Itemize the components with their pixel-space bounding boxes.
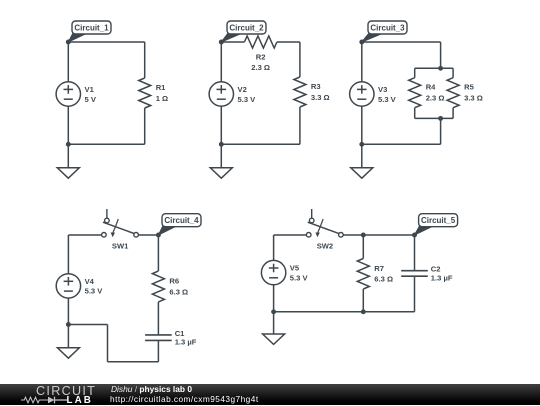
ground C3 <box>351 168 373 178</box>
wire V1 bottom <box>67 106 69 144</box>
switch SW2 <box>306 209 343 250</box>
svg-text:R6: R6 <box>169 276 179 285</box>
resistor R6 6.3 ohm <box>152 271 188 302</box>
svg-text:C1: C1 <box>175 329 185 338</box>
wire bottom right seg C4 <box>108 361 159 363</box>
wire R6 top <box>157 235 159 271</box>
junction parallel bottom <box>438 116 443 121</box>
wire node to R2 <box>221 41 244 43</box>
resistor R3 3.3 ohm <box>294 77 330 107</box>
label Circuit_5 <box>415 214 458 235</box>
resistor R7 6.3 ohm <box>357 259 393 290</box>
resistor R4 2.3 ohm <box>409 78 445 108</box>
CircuitLab logo wordmark LAB <box>67 396 93 406</box>
svg-text:V1: V1 <box>85 85 95 94</box>
label Circuit_3 <box>362 21 407 42</box>
wire parallel top rail <box>415 67 453 69</box>
svg-text:2.3 Ω: 2.3 Ω <box>251 63 270 72</box>
wire ground stem C5 <box>273 312 275 334</box>
svg-text:5.3 V: 5.3 V <box>378 95 397 104</box>
svg-text:R5: R5 <box>464 83 474 92</box>
label Circuit_4 <box>158 214 201 235</box>
node C2 top <box>412 233 417 238</box>
wire down to parallel <box>440 42 442 68</box>
wire top-left C4 <box>68 234 101 236</box>
wire R5 bottom <box>452 108 454 119</box>
node top-left C1 <box>66 40 71 45</box>
wire top C1 <box>68 41 144 43</box>
wire bottom vert seg C4 <box>107 325 109 362</box>
wire R1 bottom <box>144 108 146 144</box>
resistor R1 1 ohm <box>139 78 168 108</box>
svg-text:R4: R4 <box>426 83 436 92</box>
wire V2 bottom <box>220 106 222 144</box>
svg-text:R1: R1 <box>156 83 166 92</box>
svg-text:6.3 Ω: 6.3 Ω <box>169 287 188 296</box>
wire V5 bottom <box>273 285 275 312</box>
wire SW1 to node <box>138 234 158 236</box>
voltage source V3 5.3 V <box>350 82 397 106</box>
svg-text:3.3 Ω: 3.3 Ω <box>311 93 330 102</box>
wire top-left C5 <box>274 234 307 236</box>
footer url line <box>110 395 259 403</box>
resistor R2 2.3 ohm <box>244 36 277 72</box>
svg-text:V3: V3 <box>378 85 387 94</box>
wire bottom C2 <box>221 143 300 145</box>
svg-text:Circuit_1: Circuit_1 <box>74 23 109 32</box>
svg-text:Circuit_2: Circuit_2 <box>229 23 264 32</box>
wire ground stem C3 <box>361 144 363 168</box>
wire R7 top <box>362 235 364 259</box>
svg-text:5.3 V: 5.3 V <box>290 273 309 282</box>
capacitor C2 1.3 uF <box>401 265 453 283</box>
footer title line <box>111 385 192 393</box>
wire ground stem C2 <box>220 144 222 168</box>
svg-text:V2: V2 <box>238 85 247 94</box>
ground C1 <box>57 168 79 178</box>
svg-text:R7: R7 <box>374 264 384 273</box>
svg-text:2.3 Ω: 2.3 Ω <box>426 94 445 103</box>
resistor R5 3.3 ohm <box>447 78 483 108</box>
wire R6 to C1cap <box>157 302 159 335</box>
wire bottom C3 <box>362 143 441 145</box>
wire bottom C1 <box>68 143 144 145</box>
svg-text:1.3 µF: 1.3 µF <box>431 273 453 282</box>
svg-text:5 V: 5 V <box>85 95 97 104</box>
wire R4 bottom <box>414 108 416 119</box>
CircuitLab logo wordmark CIRCUIT <box>36 385 96 398</box>
switch SW1 <box>102 209 139 250</box>
wire R7 bottom <box>362 289 364 312</box>
svg-text:5.3 V: 5.3 V <box>85 287 104 296</box>
wire V5 rail top <box>273 235 275 260</box>
junction bottom C3 <box>359 142 364 147</box>
node R7 top <box>361 233 366 238</box>
svg-text:1.3 µF: 1.3 µF <box>175 338 197 347</box>
capacitor C1 1.3 uF <box>145 329 197 347</box>
svg-text:SW1: SW1 <box>112 241 129 250</box>
voltage source V4 5.3 V <box>56 274 103 298</box>
ground C4 <box>57 348 79 358</box>
wire node to node C5 <box>363 234 414 236</box>
wire V2 top <box>220 42 222 82</box>
wire top C3 <box>362 41 441 43</box>
wire parallel bottom rail <box>415 117 453 119</box>
svg-text:Circuit_3: Circuit_3 <box>370 23 405 32</box>
wire R4 top <box>414 68 416 77</box>
node top-left C2 <box>219 40 224 45</box>
junction bottom C2 <box>219 142 224 147</box>
junction V5 bottom <box>271 309 276 314</box>
svg-text:C2: C2 <box>431 265 441 274</box>
ground C5 <box>263 334 285 344</box>
svg-text:V5: V5 <box>290 264 300 273</box>
wire ground stem C1 <box>67 144 69 168</box>
svg-text:5.3 V: 5.3 V <box>238 95 257 104</box>
wire V4 rail top <box>67 235 69 274</box>
wire C2 top <box>414 235 416 271</box>
svg-text:6.3 Ω: 6.3 Ω <box>374 275 393 284</box>
voltage source V1 5 V <box>56 82 97 106</box>
wire V1 top <box>67 42 69 82</box>
node C4 <box>156 233 161 238</box>
wire R3 bottom <box>299 107 301 144</box>
svg-text:R2: R2 <box>256 53 266 62</box>
svg-text:Circuit_5: Circuit_5 <box>421 216 456 225</box>
wire right rail C2 <box>299 42 301 77</box>
junction V4 bottom <box>66 322 71 327</box>
wire ground stem C4 <box>67 325 69 348</box>
svg-text:R3: R3 <box>311 82 321 91</box>
svg-text:1 Ω: 1 Ω <box>156 94 168 103</box>
wire C1 down <box>157 340 159 361</box>
node top-left C3 <box>359 40 364 45</box>
junction parallel top <box>438 66 443 71</box>
svg-text:V4: V4 <box>85 277 95 286</box>
wire R1 top <box>144 42 146 78</box>
wire V3 top <box>361 42 363 82</box>
junction R7 bottom <box>361 309 366 314</box>
CircuitLab logo squiggle (resistor + diode) <box>21 395 67 405</box>
svg-text:SW2: SW2 <box>317 241 333 250</box>
label Circuit_2 <box>221 21 266 42</box>
ground C2 <box>210 168 232 178</box>
wire V4 bottom <box>67 298 69 324</box>
wire SW2 to node <box>343 234 363 236</box>
wire bottom left seg C4 <box>68 324 107 326</box>
wire C2 bottom <box>414 276 416 312</box>
svg-text:3.3 Ω: 3.3 Ω <box>464 94 483 103</box>
svg-text:Circuit_4: Circuit_4 <box>164 216 199 225</box>
voltage source V2 5.3 V <box>209 82 256 106</box>
wire parallel to bottom <box>440 118 442 144</box>
wire bottom C5 <box>274 311 415 313</box>
label Circuit_1 <box>68 21 111 42</box>
voltage source V5 5.3 V <box>261 260 308 284</box>
wire R5 top <box>452 68 454 77</box>
junction bottom C1 <box>66 142 71 147</box>
wire V3 bottom <box>361 106 363 144</box>
wire R2 to corner <box>277 41 300 43</box>
